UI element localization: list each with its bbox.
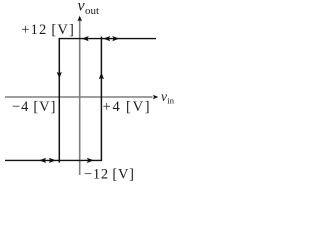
svg-text:+4 [V]: +4 [V] bbox=[103, 99, 150, 115]
svg-text:−12 [V]: −12 [V] bbox=[84, 166, 134, 182]
axis v_out arrowhead bbox=[77, 16, 82, 22]
arrow right on bottom line at -4V junction bbox=[49, 158, 56, 163]
arrow right on bottom line near +4V corner bbox=[87, 158, 94, 163]
arrow down on falling transition bbox=[57, 72, 62, 79]
arrow left on top line near axis bbox=[82, 36, 89, 41]
wire bottom output level -12V bbox=[5, 159, 101, 161]
wire falling transition at -4V bbox=[58, 38, 60, 163]
svg-text:−4 [V]: −4 [V] bbox=[12, 99, 56, 115]
wire rising transition at +4V bbox=[100, 37, 102, 162]
arrow left on top line at +4V junction bbox=[103, 36, 110, 41]
wire top output level +12V bbox=[59, 38, 156, 40]
svg-text:in: in bbox=[167, 96, 174, 106]
axis v_in (horizontal gray line) bbox=[5, 96, 153, 98]
arrow right on top line bbox=[112, 36, 119, 41]
svg-text:out: out bbox=[85, 5, 99, 17]
svg-text:+12 [V]: +12 [V] bbox=[21, 22, 74, 38]
arrow up on rising transition bbox=[99, 72, 104, 79]
arrow left on bottom line bbox=[39, 158, 46, 163]
svg-text:v: v bbox=[161, 89, 167, 104]
axis v_out (vertical gray line) bbox=[79, 20, 81, 176]
axis v_in arrowhead bbox=[153, 95, 158, 99]
